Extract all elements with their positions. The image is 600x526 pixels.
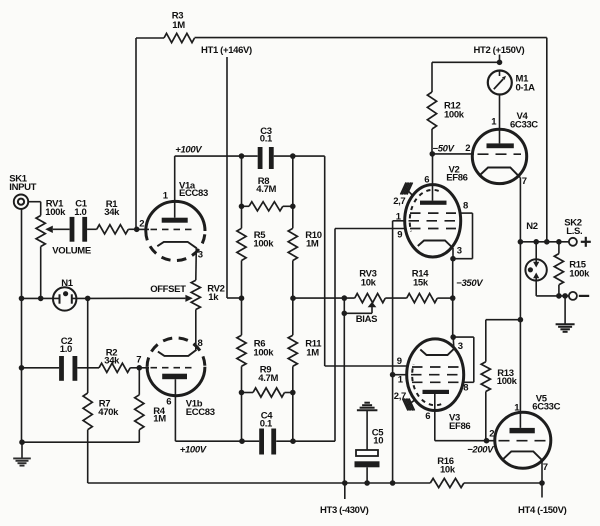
pin 2 V4: [465, 143, 470, 154]
svg-text:HT2 (+150V): HT2 (+150V): [474, 45, 525, 56]
wire C2 to R2: [77, 367, 99, 369]
tube V1b anode: [162, 374, 187, 380]
wire R13 bottom: [485, 392, 487, 441]
svg-text:3: 3: [457, 246, 462, 257]
chassis hatch V2 pins 2,7: [393, 183, 413, 208]
node R9 right: [290, 390, 296, 396]
svg-text:6: 6: [166, 397, 171, 408]
tube V5 cathode: [503, 451, 543, 461]
wire C2 row left: [22, 367, 60, 369]
node output row left: [518, 239, 524, 245]
pin 8 V1b: [198, 338, 203, 349]
node C4 right: [290, 438, 296, 444]
tube V2 cathode: [418, 241, 453, 249]
svg-text:100k: 100k: [253, 347, 274, 358]
resistor R10: [288, 228, 322, 260]
svg-text:4.7M: 4.7M: [256, 184, 276, 195]
resistor R13: [481, 362, 517, 392]
wire V3 pin1 tap: [393, 374, 407, 376]
node R15 top: [556, 239, 562, 245]
wire R7 top: [87, 298, 89, 393]
svg-text:100k: 100k: [497, 376, 518, 387]
node C4 left: [239, 438, 245, 444]
svg-text:0.1: 0.1: [260, 419, 273, 430]
node R14 right: [450, 295, 456, 301]
svg-text:VOLUME: VOLUME: [52, 246, 91, 257]
wire R3 to V1a grid: [135, 38, 137, 229]
tube V1b cathode: [158, 350, 197, 356]
svg-text:2: 2: [465, 143, 470, 154]
pin 1 V2: [396, 211, 402, 222]
net -50V label: [433, 144, 455, 155]
wire V3 pin3 stem: [452, 337, 455, 347]
capacitor C2: [59, 336, 77, 381]
svg-text:470k: 470k: [98, 407, 119, 418]
wire rail R16 to V5: [464, 482, 542, 484]
power HT1 label: [201, 45, 252, 56]
svg-text:0.1: 0.1: [260, 134, 273, 145]
pin 9 V2: [397, 230, 402, 241]
node N2 top: [533, 239, 539, 245]
wire C5 to rail: [366, 467, 368, 483]
svg-text:6: 6: [424, 175, 429, 186]
tube V3 grid rows: [411, 367, 460, 382]
wire V5 cathode to rail: [541, 461, 543, 483]
pin 8 V3: [463, 383, 468, 394]
svg-text:EF86: EF86: [449, 421, 470, 432]
wiper RV2 offset: [88, 284, 193, 302]
power HT3 label: [320, 505, 369, 516]
wire R10-R11 column: [292, 261, 294, 336]
node -50V: [430, 151, 436, 157]
wire V2 pin8 bracket: [453, 213, 473, 259]
svg-text:−350V: −350V: [456, 278, 483, 289]
node R8 left: [239, 204, 245, 210]
node HT2 junction: [497, 60, 503, 66]
wire HT1 feed: [227, 57, 242, 298]
capacitor C5: [355, 428, 385, 468]
wire V1a anode rail: [175, 155, 325, 157]
wire R7 to HT3 rail: [88, 430, 431, 483]
resistor R5: [237, 228, 274, 260]
wire R2 to V1b grid: [130, 367, 139, 369]
svg-text:100k: 100k: [444, 110, 465, 121]
node offset-R7 junction: [85, 296, 91, 302]
node R10 top: [290, 153, 296, 159]
potentiometer RV3: [355, 269, 386, 303]
resistor R1: [97, 199, 129, 234]
wire C1 to R1: [87, 228, 97, 230]
tube V4 grid: [478, 153, 522, 155]
svg-text:EF86: EF86: [446, 173, 467, 184]
pin 2 V5: [489, 429, 494, 440]
wire V3 anode stem: [434, 394, 436, 441]
svg-text:4.7M: 4.7M: [258, 373, 278, 384]
svg-text:6C33C: 6C33C: [510, 120, 538, 131]
potentiometer RV1: [36, 199, 91, 257]
resistor R2: [99, 348, 130, 373]
svg-text:100k: 100k: [253, 239, 274, 250]
wire R11 to R9: [292, 366, 294, 441]
resistor R8: [249, 176, 283, 211]
connector SK2 plus terminal: [564, 218, 591, 247]
wire SK2 minus row: [536, 295, 569, 297]
wire V1b anode stem: [174, 379, 176, 441]
svg-text:ECC83: ECC83: [179, 188, 208, 199]
capacitor C4: [259, 411, 276, 455]
meter M1: [488, 71, 535, 95]
pin 7 V5: [543, 462, 548, 473]
svg-text:HT3 (-430V): HT3 (-430V): [320, 505, 369, 516]
net BIAS label: [356, 314, 377, 325]
wire RV2 to V1b pin8: [195, 310, 197, 350]
node C2 ground: [19, 365, 25, 371]
wire feedback rail top: [136, 38, 547, 242]
wire bias row: [293, 297, 355, 299]
pin 3 V3: [458, 341, 463, 352]
svg-text:OFFSET: OFFSET: [150, 284, 186, 295]
svg-text:HT4 (-150V): HT4 (-150V): [518, 505, 567, 516]
wire HT2 to R12: [432, 62, 500, 92]
svg-text:34k: 34k: [104, 207, 120, 218]
wire -50V to V2 anode pin6: [432, 154, 434, 201]
svg-text:1M: 1M: [172, 20, 185, 31]
pin 1 V3: [398, 374, 404, 385]
node V1b grid junction: [137, 365, 143, 371]
tube V1a anode: [162, 218, 188, 223]
wire R1 to grid: [128, 228, 136, 230]
wire R4 top: [138, 368, 140, 395]
svg-text:1M: 1M: [306, 239, 319, 250]
wire V2 pin9 grid row: [335, 228, 405, 230]
tube V5 grid: [499, 440, 547, 442]
node N1 ground: [19, 296, 25, 302]
wire M1 to V4 anode: [499, 71, 501, 144]
wire output row: [520, 241, 569, 243]
resistor R6: [237, 335, 274, 366]
svg-text:HT1 (+146V): HT1 (+146V): [201, 45, 252, 56]
svg-text:7: 7: [543, 462, 548, 473]
node V5 cathode rail junction: [539, 480, 545, 486]
tube V1b envelope: [147, 338, 215, 418]
tube V2 shield arc: [410, 190, 439, 232]
net -350V label: [456, 278, 483, 289]
wire R14 to -350V column: [437, 297, 452, 299]
wire ground bus: [21, 209, 23, 442]
svg-text:ECC83: ECC83: [186, 407, 215, 418]
node HT3 rail V-pin1 junction: [390, 480, 396, 486]
svg-text:10k: 10k: [440, 464, 456, 475]
wire R13 top elbow: [486, 320, 521, 362]
node SK2 ground junction: [562, 293, 568, 299]
resistor R15: [554, 242, 590, 296]
wire V1a anode stem: [174, 156, 176, 218]
pin 1 V5: [514, 403, 520, 414]
svg-text:100k: 100k: [45, 207, 66, 218]
pin 1 V1a: [163, 191, 169, 202]
svg-text:1.0: 1.0: [74, 207, 86, 218]
node feedback takeoff: [544, 239, 550, 245]
svg-text:3: 3: [458, 341, 463, 352]
pin 6 V3: [425, 411, 430, 422]
wire R5 column upper: [241, 156, 243, 228]
node HT3 rail junction: [342, 480, 348, 486]
svg-text:7: 7: [522, 176, 527, 187]
svg-text:6: 6: [425, 411, 430, 422]
connector SK1 input jack: [9, 174, 36, 209]
pin 6 V1b: [166, 397, 171, 408]
svg-text:3: 3: [198, 250, 203, 261]
capacitor C1: [70, 199, 88, 242]
wire HT4 stem: [541, 483, 543, 498]
wire -50V to V4 grid: [432, 153, 474, 155]
resistor R16: [430, 456, 464, 488]
svg-text:2: 2: [139, 219, 144, 230]
wire R5-R6 column: [241, 261, 243, 336]
svg-text:N2: N2: [526, 221, 538, 232]
ground main earth: [13, 442, 31, 465]
svg-text:1.0: 1.0: [60, 344, 72, 355]
tube V2 EF86 envelope: [405, 165, 468, 258]
node RV3 left: [342, 295, 348, 301]
node RV1 ground: [38, 296, 44, 302]
node R8 right: [290, 204, 296, 210]
net +100V label lower: [180, 445, 207, 456]
node R5 top: [239, 153, 245, 159]
svg-text:1k: 1k: [208, 292, 219, 303]
power HT4 label: [518, 505, 567, 516]
svg-text:10k: 10k: [361, 277, 377, 288]
svg-text:+100V: +100V: [180, 445, 207, 456]
power HT2 label: [474, 45, 525, 56]
wire R4 bottom: [138, 430, 140, 443]
pin 7 V1b: [136, 355, 141, 366]
node R9 left: [239, 390, 245, 396]
wire -350V column: [452, 259, 454, 337]
tube V3 EF86 envelope: [407, 339, 471, 432]
tube V4 anode: [487, 143, 514, 148]
svg-text:2,7: 2,7: [394, 391, 406, 402]
svg-text:9: 9: [397, 230, 402, 241]
svg-text:8: 8: [463, 201, 468, 212]
svg-text:INPUT: INPUT: [9, 182, 36, 193]
tube V3 shield arc: [412, 364, 441, 405]
tube V2 grid rows: [409, 213, 458, 228]
wire RV1 bottom: [40, 247, 42, 299]
wire ground row: [22, 441, 139, 443]
wiper RV3: [342, 298, 377, 317]
tube V5 6C33C envelope: [495, 394, 561, 469]
tube V2 anode: [420, 201, 447, 205]
wire V3 pin8 bracket: [453, 337, 474, 382]
wire R10 column upper: [292, 156, 294, 228]
pin 3 V1a: [198, 250, 203, 261]
wire R8 leads: [242, 205, 293, 207]
wire C4 riser to V2 grid: [334, 229, 336, 442]
pin 7 V4: [522, 176, 527, 187]
wire V3 anode to -200V node: [435, 440, 495, 442]
capacitor C5 ground: [357, 403, 378, 450]
wire R12 to -50V node: [431, 129, 433, 154]
svg-text:34k: 34k: [104, 355, 120, 366]
wire V1b anode row: [175, 440, 335, 442]
neon N1: [22, 278, 88, 311]
resistor R3: [164, 11, 195, 43]
node HT1-R5R6 junction: [239, 295, 245, 301]
resistor R4: [135, 395, 167, 430]
svg-text:+100V: +100V: [175, 145, 202, 156]
resistor R11: [288, 335, 322, 366]
wire RV3 to R14: [385, 297, 406, 299]
svg-text:7: 7: [136, 355, 141, 366]
resistor R7: [83, 393, 119, 430]
resistor R12: [427, 92, 464, 129]
resistor R14: [407, 269, 438, 303]
wire R6 to R9: [241, 366, 243, 441]
wire C3 out riser to V3 grid: [325, 156, 408, 366]
potentiometer RV2: [191, 280, 224, 309]
wire V2 pin1 to HT3 drop: [393, 221, 405, 483]
node R15 bottom: [556, 293, 562, 299]
svg-text:−50V: −50V: [433, 144, 455, 155]
svg-text:L.S.: L.S.: [566, 226, 582, 237]
wire SK1 to RV1: [28, 202, 41, 216]
node V3 cathode junction: [450, 334, 456, 340]
tube V4 6C33C envelope: [472, 111, 538, 184]
node -200V: [484, 438, 490, 444]
neon N2: [525, 221, 546, 296]
svg-text:10: 10: [373, 436, 383, 447]
chassis hatch V3 pins 2,7: [394, 391, 415, 411]
node R10 bias junction: [290, 295, 296, 301]
svg-text:2,7: 2,7: [393, 196, 405, 207]
tube V1a cathode: [157, 242, 197, 248]
pin 8 V2: [463, 201, 468, 212]
svg-text:2: 2: [489, 429, 494, 440]
svg-text:100k: 100k: [569, 268, 590, 279]
wire bias to HT3 column: [343, 313, 345, 483]
net -200V label: [467, 445, 494, 456]
node V2 cathode junction: [450, 256, 456, 262]
resistor R9: [253, 365, 285, 398]
pin 9 V3: [397, 356, 402, 367]
pin 2 V1a: [139, 219, 144, 230]
node V3 pin1 junction: [390, 372, 396, 378]
tube V3 anode: [423, 390, 450, 394]
svg-text:9: 9: [397, 356, 402, 367]
node V1a grid junction: [134, 227, 140, 233]
tube V5 anode: [510, 428, 535, 433]
tube V1b grid: [139, 367, 196, 369]
node C5 rail junction: [364, 480, 370, 486]
svg-text:−200V: −200V: [467, 445, 494, 456]
net +100V label upper: [175, 145, 202, 156]
node R13 top junction: [518, 317, 524, 323]
svg-text:8: 8: [463, 383, 468, 394]
wire HT3 stem: [344, 483, 346, 499]
svg-text:6C33C: 6C33C: [532, 401, 560, 412]
svg-text:0-1A: 0-1A: [516, 83, 536, 94]
pin 3 V2: [457, 246, 462, 257]
wire V4 cathode to V5 anode: [519, 177, 521, 428]
svg-text:1M: 1M: [306, 347, 319, 358]
wire R9 leads: [242, 392, 293, 394]
wire HT2 stem: [499, 55, 501, 63]
wire V2 pin3 stem: [452, 248, 454, 259]
tube V4 cathode: [480, 168, 520, 178]
tube V1a grid: [137, 228, 196, 230]
tube V3 cathode: [420, 348, 455, 356]
svg-text:15k: 15k: [413, 277, 429, 288]
tube V1a envelope: [146, 181, 208, 261]
connector SK2 minus terminal: [569, 292, 589, 300]
svg-text:BIAS: BIAS: [356, 314, 377, 325]
ground SK2: [556, 296, 575, 332]
capacitor C3: [258, 126, 274, 169]
pin 6 V2: [424, 175, 429, 186]
svg-text:N1: N1: [61, 278, 74, 289]
wiper RV1: [45, 226, 69, 233]
pin 1 V4: [491, 117, 497, 128]
svg-text:1M: 1M: [153, 414, 166, 425]
wire V1a cathode to RV2: [195, 248, 198, 280]
node ground bottom: [19, 439, 25, 445]
